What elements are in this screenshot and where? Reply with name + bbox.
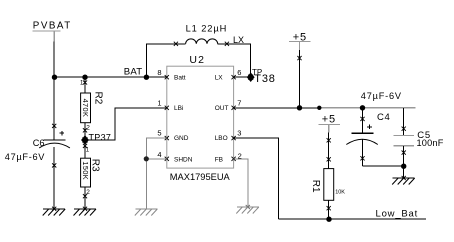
svg-text:470K: 470K — [81, 99, 90, 118]
wire output rail (gray) — [319, 107, 415, 109]
pin x-mark TP38 — [248, 75, 253, 80]
op-amp U1 / IC U2 box — [167, 66, 234, 168]
wire C4 to C5 bottom — [363, 165, 404, 167]
svg-text:OUT: OUT — [215, 105, 229, 112]
wire C6 bottom — [53, 147, 55, 209]
svg-text:BAT: BAT — [124, 67, 143, 78]
power port +5 top stub — [299, 42, 301, 50]
capacitor C4 top plate — [351, 132, 373, 134]
svg-text:4: 4 — [157, 150, 161, 159]
ground symbol FB net — [236, 207, 258, 214]
svg-text:6: 6 — [237, 68, 241, 77]
wire TP37 to LBi — [85, 108, 167, 140]
power port PVBAT stub — [53, 31, 55, 42]
svg-text:LX: LX — [233, 35, 244, 45]
pin x-mark L1 pin2 — [225, 42, 229, 46]
pin x-mark C5 pin1 — [402, 127, 406, 131]
svg-text:47µF-6V: 47µF-6V — [361, 91, 402, 101]
pin x-mark C4 pin1 — [360, 117, 364, 121]
node junction BAT-PVBAT — [52, 75, 57, 80]
wire C5 ground stub — [403, 166, 405, 178]
inductor L1 right wire — [218, 44, 251, 74]
pin x-mark C6 pin1 — [52, 124, 56, 128]
power port PVBAT underline — [33, 30, 61, 32]
wire FB net (gray) — [234, 159, 248, 207]
capacitor C4 bottom plate arc — [346, 139, 378, 144]
ground symbol output — [392, 178, 415, 185]
wire R2 top stub — [84, 77, 86, 93]
wire OUT pin7 — [234, 107, 320, 109]
test point TP37 diamond — [82, 136, 89, 144]
capacitor C6 plus sign — [60, 131, 65, 136]
pin x-mark C5 pin2 — [402, 151, 406, 155]
svg-text:5: 5 — [157, 129, 161, 138]
svg-text:Low_Bat: Low_Bat — [376, 208, 419, 219]
wire +5 drop — [299, 50, 301, 108]
wire LBO pin3 — [234, 138, 279, 219]
wire SHDN pin4 (gray net) — [146, 158, 167, 160]
pin x-mark R3 pin2 — [83, 194, 87, 198]
pin x-mark R2 pin2 — [83, 128, 87, 132]
node junction +5 drop — [297, 105, 302, 110]
svg-text:2: 2 — [86, 189, 90, 196]
svg-text:U2: U2 — [189, 54, 205, 66]
svg-text:3: 3 — [237, 129, 241, 138]
test point TP38 diamond — [247, 73, 254, 81]
svg-text:LBi: LBi — [174, 105, 183, 112]
svg-text:1: 1 — [157, 98, 161, 107]
node junction C4-C5-gnd — [401, 164, 406, 169]
svg-text:LX: LX — [215, 74, 224, 81]
svg-text:Batt: Batt — [174, 74, 186, 81]
wire PVBAT vertical — [53, 42, 55, 77]
svg-text:PVBAT: PVBAT — [33, 20, 72, 31]
svg-text:TP37: TP37 — [89, 133, 112, 143]
ground symbol R3 — [74, 209, 97, 216]
pin 7 x-mark — [232, 106, 236, 110]
node junction R1-LowBat — [326, 217, 331, 222]
capacitor C6 bottom plate arc — [39, 143, 70, 148]
resistor R2 body — [81, 93, 91, 123]
wire R1 bottom — [328, 200, 330, 219]
wire R3 bottom stub — [84, 187, 86, 209]
svg-text:LBO: LBO — [215, 135, 228, 142]
inductor L1 left wire — [146, 44, 185, 77]
x-mark C45 ground attach — [402, 176, 406, 180]
svg-text:GND: GND — [174, 135, 189, 142]
svg-text:7: 7 — [237, 98, 241, 107]
power port +5 right underline — [319, 123, 340, 125]
wire Low_Bat horizontal — [279, 218, 426, 220]
svg-text:T38: T38 — [254, 73, 275, 85]
svg-text:47µF-6V: 47µF-6V — [5, 152, 45, 162]
x-mark +5 drop — [297, 56, 301, 60]
x-mark R3 ground attach — [83, 207, 87, 211]
power port +5 right stub — [328, 124, 330, 132]
pin x-mark R1 pin1 — [327, 157, 331, 161]
pin x-mark R2 pin1 — [83, 80, 87, 84]
svg-text:C6: C6 — [33, 138, 45, 148]
pin 3 x-mark — [232, 136, 236, 140]
ground symbol GND net — [135, 209, 158, 216]
svg-text:MAX1795EUA: MAX1795EUA — [170, 172, 231, 182]
pin 6 x-mark — [232, 75, 236, 79]
capacitor C4 bottom wire — [362, 140, 364, 167]
node junction GND-SHDN — [144, 156, 149, 161]
svg-text:100nF: 100nF — [417, 138, 444, 148]
capacitor C5 bottom wire — [403, 146, 405, 166]
svg-text:2: 2 — [86, 124, 90, 131]
svg-text:R1: R1 — [310, 180, 321, 193]
pin 4 x-mark — [165, 157, 169, 161]
capacitor C6 top plate — [44, 139, 66, 141]
x-mark C6 ground attach — [52, 207, 56, 211]
pin x-mark C6 pin2 — [52, 163, 56, 167]
capacitor C4 plus sign — [367, 125, 372, 130]
pin x-mark L1 pin1 — [174, 42, 178, 46]
wire BAT horizontal — [54, 76, 167, 78]
capacitor C5 top wire — [403, 108, 405, 136]
svg-text:R2: R2 — [92, 92, 103, 105]
svg-text:10K: 10K — [335, 190, 345, 196]
capacitor C5 top plate — [393, 135, 414, 137]
power port +5 top underline — [289, 41, 311, 43]
ground symbol C6 — [43, 209, 65, 216]
pin x-mark R1 pin2 — [327, 206, 331, 210]
node junction BAT-L1 — [144, 75, 149, 80]
capacitor C4 top wire — [362, 108, 364, 134]
wire C6 top — [53, 77, 55, 140]
x-mark +5 R1 net — [327, 138, 331, 142]
wire GND pin5 (gray net) — [146, 138, 167, 209]
pin x-mark TP37 — [83, 144, 87, 148]
svg-text:8: 8 — [157, 68, 161, 77]
pin x-mark C4 pin2 — [360, 156, 364, 160]
capacitor C5 bottom plate — [393, 145, 414, 147]
wire pin6 to TP38 — [234, 76, 251, 78]
x-mark FB ground attach — [246, 205, 250, 209]
svg-text:SHDN: SHDN — [174, 157, 193, 164]
inductor L1 coil — [186, 39, 218, 44]
node junction BAT-R2 — [82, 75, 87, 80]
resistor R1 body — [324, 169, 334, 201]
pin 2 x-mark — [232, 157, 236, 161]
wire +5 to R1 — [328, 132, 330, 168]
svg-text:C4: C4 — [377, 112, 391, 123]
svg-text:FB: FB — [215, 157, 223, 164]
wire R2 bottom stub — [84, 123, 86, 137]
pin x-mark TP37 — [83, 138, 88, 143]
node junction C4 tap — [360, 105, 365, 110]
node junction rail — [317, 106, 321, 110]
wire R3 top stub — [84, 144, 86, 158]
pin 5 x-mark — [165, 136, 169, 140]
pin 1 x-mark — [165, 106, 169, 110]
svg-text:150K: 150K — [81, 161, 90, 180]
pin 8 x-mark — [165, 75, 169, 79]
svg-text:L1 22µH: L1 22µH — [186, 24, 228, 34]
resistor R3 body — [81, 158, 91, 187]
